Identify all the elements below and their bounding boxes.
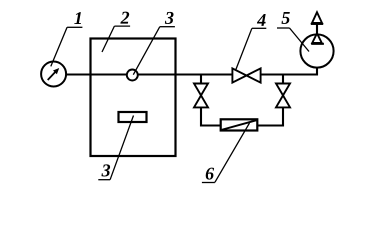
label 1 leader — [51, 27, 83, 66]
label 3 bottom leader — [98, 116, 133, 180]
drain valve left triangles — [194, 84, 208, 108]
label 3 top text — [165, 12, 174, 24]
pump inner triangle — [312, 33, 322, 43]
chamber rectangle (item 2) — [91, 39, 176, 157]
label 5 text — [282, 12, 290, 24]
sensor circle on line (item 3 top) — [127, 70, 138, 81]
label 5 leader — [277, 28, 309, 52]
gauge needle with arrowhead — [48, 68, 60, 80]
valve V4 (item 4, bowtie) — [232, 68, 260, 82]
wire: pump riser down to main line — [316, 67, 318, 75]
label 3 top leader — [133, 27, 175, 75]
pump inner triangle base line — [311, 43, 324, 45]
restrictor diagonal — [222, 120, 256, 130]
drain valve right triangles — [276, 84, 290, 108]
small rectangle inside chamber (item 3 bottom) — [119, 112, 147, 122]
label 4 leader — [236, 28, 267, 70]
wire: drain valve left down and right to restrictor 6 — [201, 107, 221, 125]
label 2 text — [120, 12, 129, 24]
label 1 text — [74, 12, 81, 24]
restrictor rectangle (item 6) — [221, 119, 258, 130]
label 2 leader — [102, 26, 130, 52]
vent connector line — [316, 24, 318, 35]
wire: gauge to circle 3 — [66, 73, 127, 75]
pump top vent triangle — [312, 12, 322, 23]
label 4 text — [257, 14, 266, 26]
label 6 text — [206, 168, 214, 180]
wire: valve 4 to pump riser corner — [261, 73, 318, 75]
wire: circle 3 to valve 4 — [138, 73, 232, 75]
gauge P1 (pressure gauge, item 1) — [41, 62, 66, 87]
pump unit circle (item 5) — [300, 34, 333, 67]
pump top vent triangle base line — [311, 23, 323, 25]
label 6 leader — [202, 123, 250, 183]
drain valve left (vertical bowtie) stub from main line — [200, 74, 202, 84]
wire: drain valve right down and left to restrictor 6 — [257, 107, 283, 125]
drain valve right stub from main line — [282, 74, 284, 84]
label 3 bottom text — [101, 164, 110, 176]
